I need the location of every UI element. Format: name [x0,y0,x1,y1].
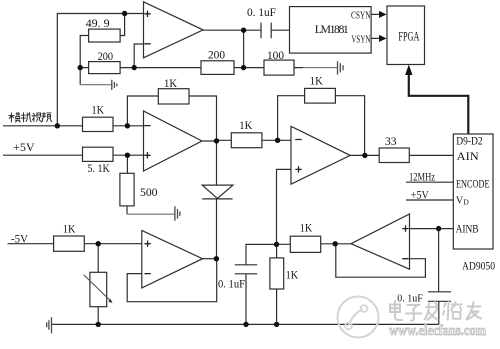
svg-text:500: 500 [140,185,158,199]
svg-text:CSYN: CSYN [351,9,371,21]
svg-text:1K: 1K [63,222,76,236]
svg-text:0. 1uF: 0. 1uF [397,293,423,305]
svg-text:0. 1uF: 0. 1uF [218,277,245,291]
svg-text:1K: 1K [300,221,313,235]
svg-text:AIN: AIN [457,151,480,163]
svg-text:0. 1uF: 0. 1uF [247,5,276,19]
svg-text:1K: 1K [239,118,252,132]
svg-text:200: 200 [98,49,114,63]
svg-text:5. 1K: 5. 1K [87,161,110,175]
svg-text:1K: 1K [164,76,177,90]
svg-text:LM1881: LM1881 [315,22,349,36]
svg-text:-5V: -5V [11,231,28,245]
svg-text:ENCODE: ENCODE [456,178,490,190]
svg-text:49. 9: 49. 9 [86,16,110,30]
svg-text:+5V: +5V [13,140,35,154]
svg-text:12MHz: 12MHz [409,170,435,184]
svg-text:www.elecfans.com: www.elecfans.com [389,323,486,339]
svg-text:100: 100 [267,48,284,62]
svg-text:1K: 1K [286,267,299,281]
svg-text:+5V: +5V [411,188,429,202]
svg-text:FPGA: FPGA [398,29,419,43]
svg-text:D9-D2: D9-D2 [456,135,483,147]
svg-text:1K: 1K [310,74,323,88]
svg-text:AINB: AINB [456,223,479,235]
svg-text:1K: 1K [92,102,105,116]
svg-text:VSYN: VSYN [351,33,370,45]
svg-text:VD: VD [456,196,470,207]
svg-text:200: 200 [208,48,225,62]
svg-text:33: 33 [385,134,397,148]
svg-text:AD9050: AD9050 [462,259,495,273]
